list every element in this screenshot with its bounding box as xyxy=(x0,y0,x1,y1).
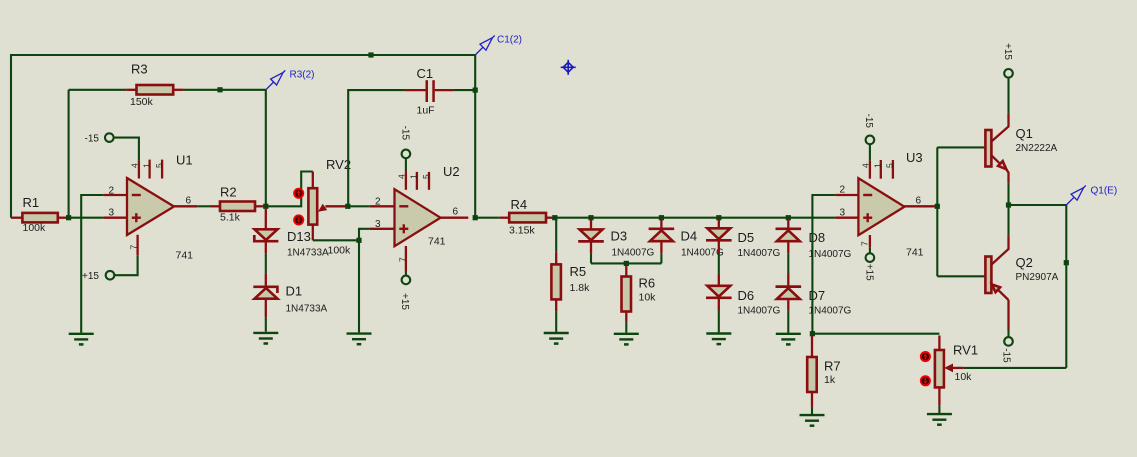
junction U3 output xyxy=(935,204,940,209)
wire R3 left vertical to R1 junction xyxy=(68,90,70,218)
junction R7 node xyxy=(810,331,815,336)
wire R3(2) vertical down to R2 junction xyxy=(265,90,267,207)
svg-text:R4: R4 xyxy=(511,197,528,212)
svg-text:R7: R7 xyxy=(824,359,841,374)
svg-text:+15: +15 xyxy=(1002,43,1013,60)
wire U2 output to R4 xyxy=(475,217,500,219)
junction D3 top xyxy=(588,215,593,220)
wire C1 right to C1(2) vertical xyxy=(453,89,475,91)
wire U1 output xyxy=(197,205,210,207)
wire D6 to ground xyxy=(718,311,720,333)
ground D1 xyxy=(253,333,278,344)
wire R1 junction to U1 pin3 xyxy=(66,217,103,219)
svg-text:R2: R2 xyxy=(220,185,237,200)
diode D4 xyxy=(649,220,724,259)
wire D7 to ground xyxy=(787,311,789,333)
svg-text:U2: U2 xyxy=(443,164,460,179)
node R3(2) arrow xyxy=(266,70,286,90)
resistor R4 xyxy=(500,197,554,237)
terminal -15 U2 xyxy=(399,126,410,159)
wire R2 node to RV2 top xyxy=(266,172,313,207)
resistor R6 xyxy=(622,266,657,322)
ground U2 pin3 xyxy=(347,334,372,345)
wire D13 to D1 xyxy=(265,253,267,273)
svg-text:7: 7 xyxy=(128,245,138,250)
junction U2 output node xyxy=(473,215,478,220)
junction D8 top xyxy=(786,215,791,220)
op-amp U3 xyxy=(835,150,937,259)
wire D8 to D7 xyxy=(787,253,789,273)
junction on right vertical xyxy=(1064,260,1069,265)
diode D6 xyxy=(706,275,781,317)
junction on top wire xyxy=(368,52,373,57)
svg-text:D7: D7 xyxy=(809,288,826,303)
svg-text:3: 3 xyxy=(375,219,381,230)
op-amp U1 xyxy=(103,153,197,262)
svg-text:741: 741 xyxy=(176,250,194,262)
wire Q1 emitter to node xyxy=(1007,183,1009,205)
terminal -15 U1 xyxy=(85,133,114,144)
resistor R3 xyxy=(126,62,184,109)
svg-text:150k: 150k xyxy=(130,96,154,108)
svg-text:C1: C1 xyxy=(417,66,434,81)
pot RV1 xyxy=(935,336,978,406)
ground D7 xyxy=(776,334,801,345)
resistor R1 xyxy=(11,195,67,234)
svg-text:6: 6 xyxy=(916,195,922,206)
ground U1 pin2 xyxy=(69,334,94,345)
wire -15 to U2 pin4 xyxy=(405,158,407,172)
ground R6 xyxy=(614,334,639,345)
svg-text:5: 5 xyxy=(885,163,895,168)
svg-text:PN2907A: PN2907A xyxy=(1016,272,1059,283)
ground RV1 xyxy=(927,414,952,425)
wire U2 pin7 to +15 xyxy=(405,271,407,276)
diode D7 xyxy=(776,274,852,317)
junction D5 top xyxy=(716,215,721,220)
junction R6 top xyxy=(624,261,629,266)
wire D3 bottom to rail xyxy=(590,253,592,263)
capacitor C1 xyxy=(405,66,453,117)
svg-text:1: 1 xyxy=(142,163,152,168)
wire D4 bottom to rail xyxy=(660,253,662,263)
svg-text:1N4007G: 1N4007G xyxy=(681,248,724,259)
wire Q2 base xyxy=(937,275,986,277)
zener D13 xyxy=(254,209,329,259)
svg-text:R3: R3 xyxy=(131,62,148,77)
svg-text:1N4007G: 1N4007G xyxy=(809,249,852,260)
ground R7 xyxy=(800,415,825,426)
svg-text:U1: U1 xyxy=(176,153,193,168)
svg-text:4: 4 xyxy=(861,163,871,168)
wire RV1 wiper row xyxy=(963,367,1066,369)
svg-text:100k: 100k xyxy=(328,245,352,257)
wire -15 to U3 pin4 xyxy=(869,144,871,161)
label C1(2) xyxy=(497,35,522,46)
ground D6 xyxy=(706,334,731,345)
button down RV2 xyxy=(294,215,303,224)
svg-text:1N4007G: 1N4007G xyxy=(738,248,781,259)
zener D1 xyxy=(253,273,327,317)
wire R5 bottom to ground xyxy=(555,311,557,332)
resistor R7 xyxy=(807,336,840,407)
svg-text:D3: D3 xyxy=(611,229,628,244)
button up RV1 xyxy=(921,352,930,361)
svg-text:1k: 1k xyxy=(824,374,836,386)
svg-text:R1: R1 xyxy=(23,195,40,210)
junction D4 top xyxy=(659,215,664,220)
svg-text:2: 2 xyxy=(375,196,381,207)
svg-text:C1(2): C1(2) xyxy=(497,35,522,46)
svg-text:5: 5 xyxy=(421,174,431,179)
svg-text:D8: D8 xyxy=(809,230,826,245)
svg-text:10k: 10k xyxy=(955,371,973,383)
svg-text:D6: D6 xyxy=(738,288,755,303)
junction Q1(E) node xyxy=(1006,202,1011,207)
wire U3 pin2 down to R7 node xyxy=(812,195,835,334)
svg-text:1N4733A: 1N4733A xyxy=(286,304,328,315)
svg-text:1N4007G: 1N4007G xyxy=(738,306,781,317)
label Q1(E) xyxy=(1091,185,1118,196)
wire Q1 base xyxy=(937,146,986,148)
svg-text:4: 4 xyxy=(130,163,140,168)
resistor R2 xyxy=(211,185,265,224)
svg-text:7: 7 xyxy=(860,241,870,246)
terminal +15 Q1 xyxy=(1002,43,1013,78)
svg-text:+15: +15 xyxy=(399,293,410,310)
svg-text:5.1k: 5.1k xyxy=(220,212,241,224)
wire shaper rail xyxy=(591,262,661,264)
button down RV1 xyxy=(921,376,930,385)
transistor Q2 xyxy=(985,235,1058,330)
svg-text:R3(2): R3(2) xyxy=(290,70,315,81)
wire C1(2) vertical down to U2 output row xyxy=(474,55,476,218)
svg-text:R5: R5 xyxy=(570,264,587,279)
terminal -15 U3 xyxy=(863,114,874,145)
transistor Q1 xyxy=(985,114,1057,183)
svg-text:-15: -15 xyxy=(863,114,874,129)
op-amp U2 xyxy=(370,164,469,271)
svg-text:3.15k: 3.15k xyxy=(509,225,535,237)
wire U3 pin7 to +15 xyxy=(869,247,871,253)
wire RV1 bottom to ground xyxy=(938,405,940,414)
resistor R5 xyxy=(551,252,590,311)
node Q1(E) arrow xyxy=(1066,186,1086,206)
label R3(2) xyxy=(290,70,315,81)
button up RV2 xyxy=(294,189,303,198)
wire top feedback from R1 input to C1(2) corner xyxy=(11,55,475,218)
wire R7 node to RV1 top xyxy=(812,333,939,335)
terminal +15 U1 xyxy=(82,271,114,282)
svg-text:1: 1 xyxy=(409,174,419,179)
svg-text:U3: U3 xyxy=(906,150,923,165)
wire D5 to D6 xyxy=(718,253,720,275)
junction RV2 bottom xyxy=(356,238,361,243)
svg-text:1N4733A: 1N4733A xyxy=(287,248,329,259)
svg-text:D5: D5 xyxy=(738,230,755,245)
svg-text:2: 2 xyxy=(840,184,846,195)
svg-text:-15: -15 xyxy=(85,134,100,145)
svg-text:-15: -15 xyxy=(399,126,410,141)
origin marker xyxy=(561,60,576,75)
junction R4 output xyxy=(552,215,557,220)
svg-text:741: 741 xyxy=(906,247,924,259)
svg-text:1N4007G: 1N4007G xyxy=(612,248,655,259)
svg-text:6: 6 xyxy=(186,195,192,206)
svg-text:D4: D4 xyxy=(681,229,698,244)
svg-text:1N4007G: 1N4007G xyxy=(809,306,852,317)
pot RV2 xyxy=(308,157,351,257)
wire D1 to ground xyxy=(265,317,267,331)
diode D5 xyxy=(706,220,781,259)
wire Q1(E) right vertical xyxy=(1065,205,1067,368)
wire U1 pin7 to +15 xyxy=(114,255,137,275)
wire R5 top xyxy=(555,218,557,253)
wire Q1(E) to corner xyxy=(1009,204,1067,206)
terminal +15 U3 xyxy=(864,253,875,281)
svg-text:+15: +15 xyxy=(82,271,99,282)
junction on R3 output wire xyxy=(217,87,222,92)
svg-text:7: 7 xyxy=(398,257,408,262)
node C1(2) arrow xyxy=(475,36,495,56)
wire Q2 emitter top to node xyxy=(1007,205,1009,235)
svg-text:+15: +15 xyxy=(864,264,875,281)
wire RV2 wiper to U2 pin2 xyxy=(348,205,370,207)
wire Q2 bottom to -15 xyxy=(1007,330,1009,337)
svg-text:6: 6 xyxy=(453,207,459,218)
svg-text:1.8k: 1.8k xyxy=(570,282,591,294)
svg-text:1: 1 xyxy=(873,163,883,168)
diode D3 xyxy=(578,220,654,259)
junction R1 output xyxy=(66,215,71,220)
junction RV2 wiper node xyxy=(345,204,350,209)
svg-text:5: 5 xyxy=(154,163,164,168)
svg-text:741: 741 xyxy=(428,236,446,248)
wire R7 to ground xyxy=(811,407,813,415)
wire U2 pin3 to ground xyxy=(359,229,370,333)
svg-text:2: 2 xyxy=(109,185,115,196)
svg-text:3: 3 xyxy=(109,208,115,219)
svg-text:R6: R6 xyxy=(639,276,656,291)
svg-text:D13: D13 xyxy=(287,229,311,244)
junction C1 right xyxy=(473,88,478,93)
terminal +15 U2 xyxy=(399,276,410,311)
terminal -15 Q2 xyxy=(1000,337,1013,363)
svg-text:10k: 10k xyxy=(639,292,657,304)
svg-text:4: 4 xyxy=(397,174,407,179)
svg-text:2N2222A: 2N2222A xyxy=(1016,143,1058,154)
junction R2 output node xyxy=(263,204,268,209)
ground R5 xyxy=(544,333,569,344)
svg-text:D1: D1 xyxy=(286,284,303,299)
wire U3 output vertical to bases xyxy=(936,147,938,276)
wire main shaper row xyxy=(555,217,836,219)
wire U1 pin2 to ground xyxy=(81,195,103,333)
wire R3 row left xyxy=(69,89,127,91)
svg-text:3: 3 xyxy=(840,207,846,218)
svg-text:1uF: 1uF xyxy=(417,105,435,117)
wire -15 to U1 pin4 xyxy=(114,138,139,161)
wire R3 output to corner xyxy=(184,89,266,91)
diode D8 xyxy=(776,220,852,260)
wire integrator node up to C1 left xyxy=(348,90,405,206)
wire R6 bottom to ground xyxy=(625,321,627,333)
svg-text:Q1: Q1 xyxy=(1016,126,1033,141)
wire +15 to Q1 collector xyxy=(1007,78,1009,114)
svg-text:Q1(E): Q1(E) xyxy=(1091,185,1118,196)
svg-text:-15: -15 xyxy=(1000,348,1011,363)
svg-text:RV1: RV1 xyxy=(953,343,978,358)
svg-text:100k: 100k xyxy=(23,222,47,234)
svg-text:Q2: Q2 xyxy=(1016,255,1033,270)
wire RV2 bottom to pin3 node xyxy=(313,239,359,241)
